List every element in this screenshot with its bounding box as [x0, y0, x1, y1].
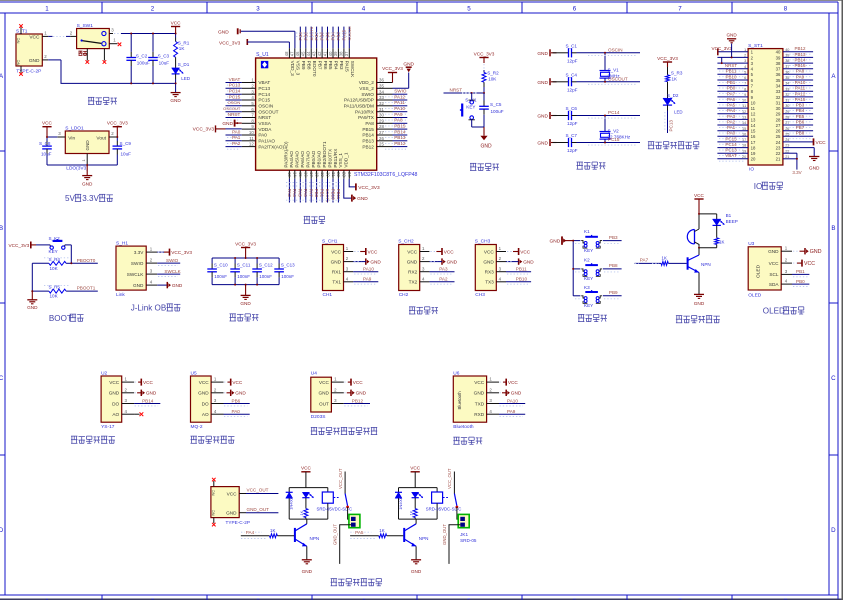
pin U1.44 BOOT0: [306, 48, 311, 58]
svg-text:27: 27: [776, 123, 781, 128]
svg-text:PA2: PA2: [232, 141, 241, 146]
svg-text:8: 8: [784, 5, 788, 12]
svg-text:PA4/AO: PA4/AO: [289, 151, 294, 168]
pin U1.18 PB0/AO: [314, 170, 319, 179]
terminal block JK: [442, 507, 469, 564]
svg-text:PA15: PA15: [795, 97, 806, 102]
relay contact: [333, 494, 349, 509]
svg-text:VCC_3V3: VCC_3V3: [474, 51, 495, 56]
wire link rows 2-3: [721, 57, 723, 64]
svg-text:PB15: PB15: [362, 127, 374, 132]
svg-text:VDD_3: VDD_3: [290, 61, 295, 77]
net label PA3: [719, 114, 745, 122]
svg-text:PC15: PC15: [608, 137, 620, 142]
svg-text:GND: GND: [403, 61, 414, 67]
svg-text:S_CH2: S_CH2: [398, 239, 414, 245]
svg-text:B: B: [831, 225, 835, 232]
svg-text:GND: GND: [407, 259, 418, 264]
svg-text:SDA: SDA: [769, 282, 780, 287]
svg-text:S_C6: S_C6: [566, 106, 578, 111]
svg-text:22: 22: [336, 172, 341, 177]
svg-text:VCC: VCC: [769, 261, 780, 266]
alarm top rail: [699, 213, 717, 215]
net label PB11: [719, 69, 745, 77]
net label PB7: [786, 125, 812, 133]
svg-text:TX2: TX2: [409, 280, 418, 285]
svg-text:30: 30: [776, 106, 781, 111]
title 滤波电路: [230, 314, 259, 321]
resistor 1K relay led: [408, 498, 417, 519]
net PA3 wire rx: [429, 267, 454, 275]
pin H1.2: [146, 258, 157, 263]
power port VCC_3V3 at U1 VDDA: [193, 125, 242, 132]
net label PB8: [786, 131, 812, 139]
svg-text:PB0: PB0: [314, 189, 319, 198]
svg-text:VCC: VCC: [199, 380, 210, 385]
svg-text:LDO(3V3): LDO(3V3): [66, 166, 88, 172]
pin U1.37 SWCLK: [344, 48, 349, 58]
net PA10 wire rx: [353, 267, 378, 275]
svg-text:PA1: PA1: [232, 135, 241, 140]
svg-text:AO: AO: [202, 412, 209, 417]
power port VCC relay: [301, 466, 312, 488]
power port VCC_3V3 boot: [8, 242, 46, 249]
net SWIO wire: [157, 258, 180, 266]
resistor S_R1 1K: [174, 34, 190, 58]
svg-text:OSCIN: OSCIN: [258, 104, 273, 109]
net label PC15: [719, 136, 745, 144]
svg-text:30: 30: [785, 104, 789, 108]
svg-text:27: 27: [785, 121, 789, 125]
svg-text:VCC: VCC: [353, 380, 364, 385]
svg-text:PA7: PA7: [727, 91, 736, 96]
wire R2 to node: [483, 82, 485, 87]
svg-text:PB12: PB12: [394, 141, 406, 146]
svg-text:21: 21: [331, 172, 336, 177]
boot rail: [31, 263, 33, 291]
pin U1.26 PB13: [377, 136, 393, 141]
resistor S_R4 10K: [32, 257, 71, 271]
svg-text:GND: GND: [537, 141, 548, 147]
wire+net PB3: [336, 27, 341, 49]
svg-text:10: 10: [249, 130, 254, 135]
svg-text:KEY: KEY: [466, 104, 475, 109]
svg-text:TXD: TXD: [475, 401, 485, 406]
net label PA10: [786, 80, 812, 88]
svg-text:PA2: PA2: [727, 119, 736, 124]
power port GND at U1 VSSA: [222, 120, 241, 127]
svg-text:U6: U6: [453, 370, 459, 376]
pin ST1.18 left: [717, 144, 748, 148]
pin ST1.23 right: [783, 144, 814, 148]
svg-text:OSCOUT: OSCOUT: [258, 109, 278, 114]
svg-text:22: 22: [776, 151, 781, 156]
svg-text:NRST: NRST: [725, 63, 738, 68]
svg-text:32: 32: [785, 93, 789, 97]
pin U1.6 OSCOUT: [242, 107, 256, 112]
svg-text:NPN: NPN: [701, 262, 711, 267]
pin U6.4: [487, 409, 499, 414]
wire+net PC15: [226, 94, 242, 102]
svg-text:VSS_2: VSS_2: [359, 86, 374, 91]
wire+net PA3: [287, 179, 292, 203]
pin U1.33 PA12/USB/DP: [377, 95, 393, 100]
svg-text:VCC_3V3: VCC_3V3: [219, 40, 241, 46]
regulator S_LDO1 LDO(3V3): [65, 125, 109, 171]
relay coil: [426, 488, 462, 519]
pin ST1.38 right: [783, 59, 813, 63]
svg-text:PB14: PB14: [394, 129, 406, 134]
transistor Q NPN alarm: [688, 248, 711, 273]
switch S_SW1: [70, 23, 109, 49]
power port GND keys: [550, 236, 574, 244]
svg-text:GND: GND: [146, 391, 157, 396]
power port GND S_CH1: [353, 258, 381, 264]
svg-text:TX3: TX3: [485, 280, 494, 285]
svg-text:VSS_3: VSS_3: [296, 61, 301, 76]
wire+net OSCOUT: [223, 106, 242, 114]
net label PA11: [786, 86, 812, 94]
svg-text:S_V2: S_V2: [608, 129, 620, 134]
capacitor S_C12 100nF: [252, 258, 273, 285]
pin U1.32 PA11/USB/DM: [377, 101, 393, 106]
svg-text:PB9: PB9: [301, 61, 306, 70]
connector S_CH3: [475, 239, 497, 299]
wire+net PA12: [385, 94, 407, 102]
junction dots power rails: [130, 33, 176, 85]
svg-text:GND: GND: [537, 114, 548, 120]
wire+net OSCIN: [226, 100, 242, 108]
svg-text:44: 44: [306, 51, 311, 56]
svg-text:33: 33: [776, 89, 781, 94]
svg-text:GND: GND: [511, 391, 522, 396]
pin U1.38 PA15: [339, 48, 344, 58]
connector S_T2 TYPE-C-2P out: [211, 487, 250, 526]
relay top rail: [399, 487, 438, 489]
pin U3.3: [781, 269, 792, 275]
ground GND ldo: [82, 165, 93, 186]
svg-text:KEY: KEY: [584, 276, 593, 281]
net label PC13: [719, 148, 745, 156]
net label PA4: [719, 108, 745, 116]
power port VCC header pin24: [814, 138, 827, 145]
net PBOOT0 wire: [44, 258, 98, 264]
pin S_CH3.2: [496, 256, 506, 261]
svg-text:PB7: PB7: [796, 125, 805, 130]
power port VCC relay: [410, 466, 421, 488]
svg-text:16: 16: [742, 132, 746, 136]
svg-text:VCC: VCC: [368, 249, 379, 254]
svg-text:IO: IO: [754, 182, 763, 191]
transistor NPN relay driver: [295, 519, 319, 546]
svg-text:5V: 5V: [65, 194, 76, 203]
wire VCC rail top: [121, 33, 176, 35]
svg-text:S_SW1: S_SW1: [77, 23, 94, 29]
svg-text:NPN: NPN: [419, 536, 429, 541]
svg-text:12pF: 12pF: [567, 148, 578, 153]
pin ST1.7 left: [717, 82, 748, 86]
pin U1.3 PC14: [242, 89, 256, 94]
svg-text:1N4007: 1N4007: [289, 496, 294, 510]
net PB12 wire: [344, 398, 370, 406]
svg-text:TYPE-C-2P: TYPE-C-2P: [226, 520, 250, 525]
svg-text:VCC: VCC: [474, 380, 485, 385]
svg-text:26: 26: [785, 127, 789, 131]
junctions crystal: [604, 115, 606, 117]
svg-text:PA15: PA15: [345, 61, 350, 73]
svg-text:3.3V: 3.3V: [82, 194, 99, 203]
LED S_D2: [663, 93, 683, 115]
svg-text:GND: GND: [480, 144, 492, 150]
wire+net PB1: [320, 179, 325, 203]
svg-text:PA11/USB/DM: PA11/USB/DM: [344, 104, 374, 109]
wire+net PA8: [385, 118, 407, 126]
relay coil: [317, 488, 353, 519]
net label PB10: [719, 74, 745, 82]
svg-text:PB0/AO: PB0/AO: [311, 150, 316, 167]
pin ST1.30 right: [783, 104, 813, 108]
svg-text:GND: GND: [240, 301, 251, 306]
pin ST1.40 right: [783, 48, 813, 52]
wire+net PB14: [385, 129, 407, 137]
no-connect S_T1 NC top: [19, 24, 23, 34]
svg-text:VCC: VCC: [319, 380, 330, 385]
wire T1.VCC to SW1.2: [48, 31, 73, 37]
svg-text:NC: NC: [16, 60, 21, 66]
net label PB3: [786, 103, 812, 111]
LED S_D1: [172, 57, 191, 81]
svg-text:PBOOT1: PBOOT1: [77, 286, 96, 291]
svg-text:4: 4: [362, 5, 366, 12]
svg-text:VCC_3V3: VCC_3V3: [193, 127, 215, 133]
svg-text:VCC_3V3: VCC_3V3: [358, 185, 380, 191]
svg-text:16: 16: [751, 134, 756, 139]
resistor 1K base: [241, 528, 294, 538]
wire LED to PC13 + net label: [665, 105, 673, 133]
pin S_CH2.2: [420, 256, 430, 261]
capacitor S_C4 12pF: [553, 73, 641, 93]
svg-text:PC13: PC13: [258, 86, 270, 91]
svg-text:3.3V: 3.3V: [792, 170, 801, 175]
svg-text:37: 37: [344, 51, 349, 56]
svg-text:S_V1: S_V1: [608, 68, 620, 73]
junctions filter: [234, 257, 258, 286]
svg-text:2: 2: [744, 54, 746, 58]
svg-text:GND: GND: [222, 121, 233, 127]
svg-text:GND: GND: [537, 51, 548, 57]
svg-text:36: 36: [379, 78, 384, 83]
capacitor S_C10 100nF: [207, 258, 228, 285]
wire+net PC13: [226, 83, 242, 91]
filter bottom rail: [212, 284, 279, 286]
svg-text:PB15: PB15: [394, 123, 406, 128]
pin ST1.9 left: [717, 93, 748, 97]
svg-text:PA9/TX: PA9/TX: [358, 115, 375, 120]
svg-text:U2: U2: [101, 370, 107, 376]
svg-text:VCC: VCC: [816, 140, 827, 146]
svg-text:GND: GND: [133, 283, 144, 288]
power port GND at U1 VSS_2: [393, 61, 415, 88]
svg-text:D: D: [831, 527, 836, 534]
svg-text:VDDA: VDDA: [258, 127, 272, 132]
power port GND S_CH3: [506, 258, 534, 264]
svg-text:23: 23: [776, 146, 781, 151]
svg-text:PB13: PB13: [794, 52, 806, 57]
svg-text:GND: GND: [447, 260, 458, 265]
relay contact: [443, 494, 459, 509]
svg-text:S_CH3: S_CH3: [475, 239, 491, 245]
svg-text:12: 12: [249, 142, 254, 147]
net label PA1: [719, 125, 745, 133]
capacitor S_C13 100nF: [274, 258, 295, 285]
pin U1.7 NRST: [242, 113, 256, 118]
svg-text:PB1: PB1: [320, 189, 325, 198]
pin U1.2 PC13: [242, 83, 256, 88]
pushbutton K3 KEY: [573, 285, 621, 308]
pin U1.17 PA7/AO: [309, 170, 314, 179]
svg-text:48: 48: [284, 51, 289, 56]
pin U1.9 VDDA: [242, 124, 256, 129]
pin ST1.15 left: [717, 127, 748, 131]
svg-text:PB10/TX: PB10/TX: [327, 148, 332, 168]
svg-text:VBAT: VBAT: [725, 153, 737, 158]
svg-text:PC14: PC14: [725, 142, 737, 147]
svg-text:PB6: PB6: [320, 31, 325, 40]
svg-text:GND: GND: [357, 196, 368, 202]
wire+net PA0: [226, 129, 242, 137]
pin U1.40 PB4: [328, 48, 333, 58]
net PB11 wire rx: [506, 267, 531, 275]
pin U1.23 VSS_1: [342, 170, 347, 179]
pin U1.8 VSSA: [242, 118, 256, 123]
svg-text:PB3: PB3: [609, 235, 618, 240]
net label PA15: [786, 97, 812, 105]
svg-text:39: 39: [776, 55, 781, 60]
junctions alarm: [698, 213, 700, 215]
svg-text:40: 40: [785, 48, 789, 52]
svg-text:PC13: PC13: [668, 120, 673, 132]
svg-text:GND: GND: [29, 58, 40, 64]
svg-text:IO: IO: [749, 166, 754, 172]
pushbutton S_K2 KEY: [47, 236, 72, 254]
svg-text:VCC: VCC: [694, 193, 705, 198]
wire ldo bottom rail: [47, 164, 117, 166]
svg-text:12: 12: [742, 110, 746, 114]
svg-text:19: 19: [751, 151, 756, 156]
net GND_OUT wire t2: [239, 507, 278, 513]
svg-text:LED: LED: [181, 76, 191, 81]
power port VCC_3V3 filter: [235, 241, 256, 258]
svg-text:S_C11: S_C11: [237, 263, 251, 268]
svg-text:PC15: PC15: [725, 136, 737, 141]
pin ST1.4 left: [717, 65, 748, 69]
junction node reset: [483, 92, 485, 94]
connector S_CH2: [398, 239, 420, 299]
svg-text:U5: U5: [191, 370, 197, 376]
title 继电器控制电路: [331, 579, 382, 586]
net label NRST + wire: [444, 88, 485, 93]
pin S_CH1.3: [344, 266, 354, 271]
svg-text:PA12: PA12: [795, 91, 806, 96]
svg-text:SCL: SCL: [769, 272, 779, 277]
svg-text:25: 25: [785, 132, 789, 136]
svg-text:GND: GND: [411, 569, 422, 574]
svg-text:KEY: KEY: [584, 303, 593, 308]
ic U1 STM32F103C8T6_LQFP48 body: [256, 52, 418, 178]
svg-text:PB6: PB6: [796, 119, 805, 124]
pin ST1.35 right: [783, 76, 813, 80]
wire+net PA2: [226, 141, 242, 149]
svg-text:NRST: NRST: [258, 115, 271, 120]
net label PB6: [786, 119, 812, 127]
svg-text:15: 15: [742, 127, 746, 131]
svg-text:GND: GND: [523, 260, 534, 265]
svg-text:S_ST1: S_ST1: [748, 43, 763, 49]
pin U1.13 PA3/RX(AO): [287, 170, 292, 179]
wire+net NRST: [226, 112, 242, 120]
wire+net PB15: [385, 123, 407, 131]
svg-text:S_R1: S_R1: [178, 40, 190, 45]
svg-text:17: 17: [742, 138, 746, 142]
LED relay indicator: [412, 492, 423, 498]
svg-text:S_R3: S_R3: [671, 70, 683, 75]
pin ST1.1 left: [717, 48, 748, 52]
svg-text:GND: GND: [810, 249, 822, 255]
svg-text:PB9: PB9: [609, 290, 618, 295]
svg-text:PC14: PC14: [608, 110, 620, 115]
power port VCC_3V3 jlink: [157, 249, 192, 256]
pin S_T1.1 VCC: [42, 31, 48, 37]
svg-text:PA9: PA9: [796, 74, 805, 79]
svg-text:VBAT: VBAT: [258, 80, 270, 85]
pin U6.1: [487, 377, 499, 382]
svg-text:PB8: PB8: [796, 131, 805, 136]
svg-text:1K: 1K: [299, 510, 304, 515]
power port VCC_3V3 reset: [474, 51, 495, 72]
svg-text:PA2/TX(AO): PA2/TX(AO): [258, 144, 284, 149]
svg-text:U3: U3: [748, 241, 754, 247]
wire+net PA9: [385, 112, 407, 120]
pin S_CH3.3: [496, 266, 506, 271]
dashes near top labels: [296, 32, 352, 34]
svg-text:11: 11: [751, 106, 756, 111]
pin U1.10 PA0: [242, 130, 256, 135]
svg-text:BEEP: BEEP: [726, 219, 738, 224]
title 串口电路: [409, 307, 438, 314]
pin U1.20 PB2/BOOT1: [325, 170, 330, 179]
svg-text:MQ-2: MQ-2: [191, 424, 203, 430]
svg-text:VCC: VCC: [520, 249, 531, 254]
pin U1.21 PB10/TX: [331, 170, 336, 179]
wire+net PA11: [385, 100, 407, 108]
label 开关: [79, 51, 87, 55]
svg-text:100nF: 100nF: [281, 274, 294, 279]
resistor 1K base: [350, 528, 403, 538]
svg-text:11: 11: [249, 136, 254, 141]
pushbutton S_K1 KEY: [460, 93, 477, 127]
pin U1.34 SWIO: [377, 89, 393, 94]
svg-text:DO: DO: [112, 401, 119, 406]
svg-text:31: 31: [379, 107, 384, 112]
svg-text:PB13: PB13: [362, 139, 374, 144]
pin S_CH3.4: [496, 276, 506, 281]
net PB10 wire tx: [506, 277, 531, 285]
net label PC14: [588, 110, 636, 118]
svg-text:S_LDO1: S_LDO1: [65, 125, 84, 131]
svg-text:PB0: PB0: [796, 279, 805, 284]
svg-text:1: 1: [744, 48, 746, 52]
wire+net PB11: [336, 179, 341, 203]
